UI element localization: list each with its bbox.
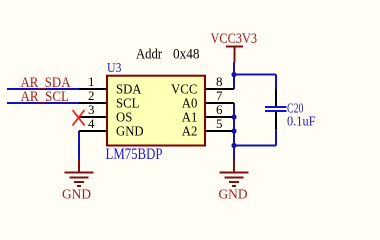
svg-text:VCC: VCC xyxy=(171,82,197,97)
svg-text:6: 6 xyxy=(216,102,223,117)
svg-text:VCC3V3: VCC3V3 xyxy=(211,31,258,47)
svg-text:A2: A2 xyxy=(182,124,198,139)
svg-text:SDA: SDA xyxy=(116,82,142,97)
svg-text:Addr: Addr xyxy=(136,47,162,63)
svg-text:2: 2 xyxy=(88,88,95,103)
svg-text:GND: GND xyxy=(116,124,144,139)
svg-text:A0: A0 xyxy=(182,96,198,111)
svg-text:3: 3 xyxy=(88,102,95,117)
svg-text:GND: GND xyxy=(62,187,91,202)
svg-text:AR_SCL: AR_SCL xyxy=(21,89,70,105)
svg-text:0.1uF: 0.1uF xyxy=(287,115,316,130)
svg-text:1: 1 xyxy=(88,74,95,89)
svg-text:U3: U3 xyxy=(107,60,122,75)
svg-text:7: 7 xyxy=(216,88,223,103)
svg-text:5: 5 xyxy=(216,116,223,131)
svg-text:LM75BDP: LM75BDP xyxy=(106,146,163,163)
svg-text:0x48: 0x48 xyxy=(173,47,200,63)
svg-text:4: 4 xyxy=(88,116,95,131)
svg-text:OS: OS xyxy=(116,110,132,125)
svg-text:GND: GND xyxy=(219,187,248,202)
svg-text:A1: A1 xyxy=(182,110,198,125)
svg-text:SCL: SCL xyxy=(116,96,139,111)
svg-text:8: 8 xyxy=(216,74,223,89)
